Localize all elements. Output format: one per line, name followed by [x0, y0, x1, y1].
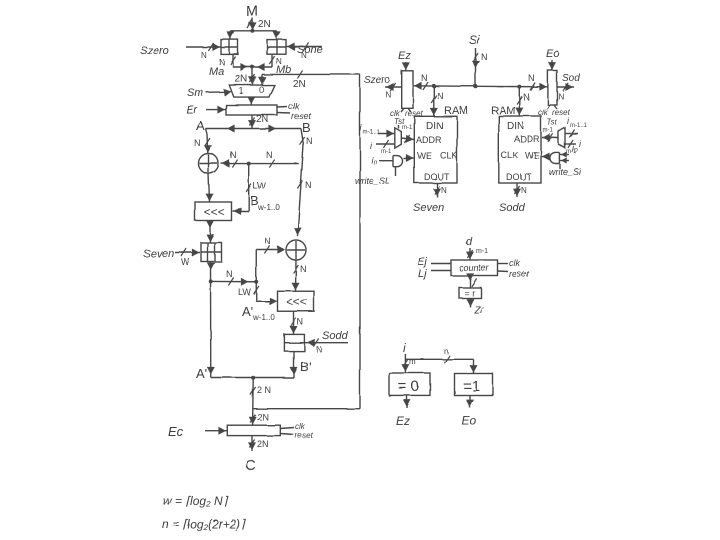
bus-width label 2N (regC in) [257, 412, 269, 422]
svg-text:WE: WE [417, 151, 432, 161]
wire Ez output [403, 395, 411, 408]
net label i m-1..1 (M4) [567, 116, 588, 129]
svg-text:Er: Er [186, 104, 198, 116]
junction merge [251, 376, 255, 380]
svg-text:LW: LW [238, 287, 251, 297]
net label Seven [143, 248, 174, 260]
net label Ej [417, 256, 427, 268]
wire branch to CMP1 [470, 359, 478, 373]
pin clk (REG-AB) [277, 101, 299, 111]
node B' [300, 359, 311, 374]
svg-text:ADDR: ADDR [416, 135, 442, 145]
svg-text:Ec: Ec [168, 424, 184, 439]
wire i0 input (G1) [379, 160, 393, 162]
net label B w-1..0 [250, 193, 280, 212]
wire i0 input (G2) [560, 152, 569, 158]
net label d [466, 236, 473, 248]
junction on M split [250, 29, 254, 33]
pin CLK (RAM1) [440, 151, 458, 161]
svg-text:N: N [521, 186, 527, 195]
svg-text:Sodd: Sodd [322, 330, 349, 342]
svg-text:Szero: Szero [140, 45, 169, 57]
svg-text:DOUT: DOUT [424, 172, 450, 182]
formula W [163, 494, 229, 508]
svg-text:2N: 2N [258, 19, 271, 30]
svg-text:N: N [297, 317, 304, 327]
wire bus to DIN2 [515, 87, 523, 116]
width label N (bus right) [528, 73, 535, 83]
net label Si [469, 33, 480, 47]
pin WE (RAM2) [525, 151, 540, 161]
svg-text:i: i [403, 341, 406, 355]
formula n [162, 517, 246, 531]
svg-text:Ez: Ez [398, 50, 411, 62]
svg-text:N: N [201, 51, 207, 60]
net label i0 (G1) [371, 155, 377, 165]
wire i high input (M3) [378, 130, 394, 138]
mux M3 (ADDR1) [395, 128, 402, 148]
wire merge down [249, 378, 257, 426]
select label Tst (M4) [547, 118, 558, 127]
wire Ec enable [205, 427, 227, 435]
wire Eo enable [548, 60, 556, 71]
wire feedback vertical [359, 74, 361, 408]
width label N (DIN2) [523, 92, 530, 102]
net label Seven out [413, 202, 444, 214]
svg-text:N: N [558, 92, 564, 101]
wire S1 to mux M2 [206, 220, 214, 242]
net label Er [186, 104, 198, 116]
svg-text:DOUT: DOUT [506, 172, 532, 182]
adder U2 [286, 240, 306, 260]
svg-text:N: N [226, 269, 233, 279]
net label i m-1..1 [360, 123, 381, 136]
svg-text:A': A' [196, 366, 207, 381]
net label i (M4) [579, 139, 582, 149]
wire REG-AB output [248, 115, 256, 129]
svg-text:N: N [301, 51, 307, 60]
node C [245, 457, 256, 474]
wire Ez enable [402, 62, 410, 71]
width label N (U1 in left) [230, 150, 237, 160]
width label n (branch) [444, 347, 448, 356]
wire G1 to WE1 [404, 154, 414, 162]
wire M2 out branch right [211, 278, 257, 286]
bus-width label 2N on M [258, 19, 271, 30]
junction branch col [254, 280, 258, 284]
net label Sod out [562, 73, 580, 84]
svg-text:Ez: Ez [396, 414, 410, 428]
svg-text:=1: =1 [463, 378, 480, 395]
register Ma [221, 40, 238, 55]
svg-text:Eo: Eo [462, 414, 477, 428]
svg-text:N: N [385, 90, 391, 99]
pin reset (REG-AB) [277, 111, 312, 121]
width label N (U1 in right) [266, 150, 273, 160]
svg-text:N: N [421, 73, 428, 83]
wire M4 to ADDR2 [542, 134, 559, 142]
wire to mux Ma [226, 31, 234, 40]
pin reset (REG-O) [552, 105, 571, 117]
svg-text:clk: clk [295, 422, 306, 431]
node A [196, 118, 205, 133]
svg-text:2N: 2N [256, 114, 269, 125]
register REG-C [227, 425, 280, 435]
svg-text:clk: clk [288, 101, 299, 111]
counter CNT1 [451, 260, 498, 276]
wire Er enable [206, 106, 226, 114]
pin clk (REG-Z) [390, 108, 404, 118]
net label Sm [187, 87, 204, 99]
wire Sod output [557, 83, 574, 91]
wire Sone input [286, 43, 322, 51]
bus-width label 2N (C) [257, 439, 269, 449]
net label i0 (G2) [572, 143, 578, 153]
net label Eo out [462, 414, 477, 428]
junction DIN2 branch [517, 85, 521, 89]
width label N (Sone) [301, 51, 307, 60]
register REG-Z (Szero) [402, 71, 413, 109]
svg-text:m-1: m-1 [476, 248, 488, 255]
wire S2 to REG-B' [290, 311, 298, 334]
width label m (i) [409, 357, 416, 366]
pin DIN (RAM1) [426, 121, 443, 132]
component label Ma [209, 66, 224, 78]
wire Sodd input [304, 339, 348, 347]
svg-text:W: W [181, 257, 190, 267]
svg-text:N: N [523, 92, 530, 102]
svg-text:Ma: Ma [209, 66, 224, 78]
bus-width label 2N (feedback) [293, 79, 306, 90]
wire Szero input [186, 43, 221, 51]
width label N (DOUT1) [441, 186, 447, 195]
net label i (M3) [370, 141, 373, 151]
width label N (Szero out) [385, 90, 391, 99]
pin ADDR (RAM1) [416, 135, 442, 145]
width label N (Mb out) [276, 57, 282, 66]
svg-text:N: N [481, 52, 488, 62]
svg-text:write_Si: write_Si [549, 167, 582, 177]
svg-text:i₀: i₀ [371, 155, 377, 165]
wire i input (M3) [376, 140, 394, 148]
wire i branch right [405, 355, 473, 363]
wire DOUT2 output [513, 183, 521, 197]
net label write_SL [355, 176, 390, 186]
pin DIN (RAM2) [507, 121, 524, 132]
wire adder U2 output [292, 260, 300, 291]
width label N (Ma out) [219, 58, 225, 67]
svg-text:2N: 2N [235, 74, 248, 85]
svg-text:RAM: RAM [491, 105, 515, 117]
svg-text:w-1..0: w-1..0 [257, 203, 280, 212]
net label Eo [546, 48, 559, 60]
svg-text:N: N [305, 180, 312, 190]
mux M1 pin 0 [259, 85, 264, 95]
wire i input (M4) [565, 140, 576, 148]
svg-text:N: N [264, 236, 271, 246]
wire REG-B' output [290, 351, 298, 377]
wire C output [248, 436, 256, 451]
svg-text:N: N [306, 136, 313, 146]
wire Szero output [385, 83, 402, 91]
junction M2 out [209, 279, 213, 283]
svg-text:N: N [266, 150, 273, 160]
wire shift-amount to S1 [233, 164, 252, 215]
wire Mb output [269, 54, 274, 67]
wire B to adder U1 input [221, 160, 299, 168]
svg-text:m: m [409, 357, 416, 366]
width label W (Seven) [181, 257, 190, 267]
svg-text:clk: clk [509, 258, 520, 268]
svg-text:Sod: Sod [562, 73, 580, 84]
wire d input [466, 248, 474, 260]
register Mb [267, 40, 286, 55]
junction Si-bus [474, 84, 478, 88]
svg-text:Tst: Tst [547, 118, 558, 127]
svg-text:LW: LW [253, 181, 266, 191]
wire DOUT1 output [433, 183, 441, 197]
width label m-1 (M3 in) [381, 149, 392, 155]
shifter S1 [195, 202, 232, 221]
gate G2 (AND) [550, 152, 560, 163]
svg-text:w = ⌈log₂ N⌉: w = ⌈log₂ N⌉ [163, 494, 229, 508]
svg-text:N: N [441, 186, 447, 195]
svg-text:DIN: DIN [507, 121, 524, 132]
wire i high input (M4) [565, 130, 578, 138]
svg-text:<<<: <<< [204, 205, 225, 219]
comparator CMP-0 [389, 373, 430, 395]
svg-text:= r: = r [464, 288, 475, 298]
net label Szero [140, 45, 169, 57]
wire Seven input [175, 249, 200, 257]
pin clk (REG-C) [280, 422, 305, 431]
bus A'-B' merge [211, 377, 294, 379]
wire B vertical [294, 129, 305, 237]
width label N (Szero) [201, 51, 207, 60]
pin CLK (RAM2) [501, 151, 519, 161]
svg-text:N: N [528, 73, 535, 83]
mux M1 (select Sm) [229, 85, 274, 97]
svg-text:N: N [230, 150, 237, 160]
component label RAM2 [491, 105, 515, 117]
width label N (DIN1) [437, 91, 444, 101]
mux M4 (ADDR2) [559, 128, 566, 148]
svg-text:WE: WE [525, 151, 540, 161]
svg-text:2 N: 2 N [257, 385, 271, 395]
svg-text:2N: 2N [257, 412, 269, 422]
svg-text:CLK: CLK [501, 151, 519, 161]
svg-text:Seven: Seven [143, 248, 174, 260]
wire M2 down to A' [207, 262, 215, 378]
svg-text:reset: reset [509, 269, 530, 279]
svg-text:n: n [444, 347, 448, 356]
wire bus to DIN1 [430, 86, 438, 116]
comparator CMP-R [459, 288, 481, 299]
component label RAM1 [444, 105, 468, 117]
net label Sodd [322, 330, 349, 342]
wire A to adder U1 [204, 129, 212, 154]
width label N (Si) [481, 52, 488, 62]
net label Ez [398, 50, 411, 62]
svg-text:2N: 2N [293, 79, 306, 90]
svg-text:C: C [245, 457, 256, 474]
pin reset (CNT1) [498, 269, 530, 279]
svg-text:N: N [316, 345, 322, 354]
node M (input bus label) [246, 3, 259, 20]
mux M1 pin 1 [239, 86, 244, 96]
junction DIN1 branch [432, 84, 436, 88]
svg-text:m-1: m-1 [402, 125, 413, 131]
pin clk (CNT1) [498, 258, 521, 268]
width label N (U2 out) [300, 264, 307, 274]
wire Lj input [431, 270, 451, 272]
wire Zr output [466, 298, 474, 307]
pin DOUT (RAM2) [506, 172, 532, 182]
width label N (bus left) [421, 73, 428, 83]
wire write_SL input (G1) [395, 167, 397, 176]
wire i down [401, 354, 409, 373]
width label N (Sodd) [316, 345, 322, 354]
svg-text:0: 0 [259, 85, 264, 95]
pin ADDR (RAM2) [514, 134, 540, 144]
svg-text:N: N [300, 264, 307, 274]
wire branch to shifter S2 [254, 282, 277, 305]
wire write input (G2) [560, 158, 569, 170]
net label Lj [418, 268, 427, 280]
register REG-B' (Sodd mux) [284, 334, 304, 351]
wire CNT1 output [466, 273, 477, 287]
comparator CMP-1 [455, 374, 493, 396]
bus S main [413, 82, 548, 91]
svg-text:1: 1 [239, 86, 244, 96]
width label N (branch) [226, 269, 233, 279]
bus-width label 2N (merge) [257, 385, 271, 395]
junction B-shift branch [247, 162, 251, 166]
pin reset (REG-C) [280, 431, 313, 440]
wire G2 to WE2 [542, 153, 550, 161]
wire branch to adder U2 [256, 246, 285, 282]
svg-text:A': A' [242, 304, 253, 319]
junction Ma-Mb join [251, 65, 255, 69]
node A' [196, 366, 207, 381]
svg-text:Eo: Eo [546, 48, 559, 60]
bus-width label 2N (mux in1) [235, 74, 248, 85]
svg-text:RAM: RAM [444, 105, 468, 117]
svg-text:reset: reset [295, 431, 314, 440]
pin reset (REG-Z) [405, 108, 424, 118]
net label Sone [297, 44, 323, 56]
svg-text:m-1..1: m-1..1 [570, 123, 588, 129]
pin DOUT (RAM1) [424, 172, 450, 182]
svg-text:Ej: Ej [417, 256, 427, 268]
width label m-1 (M4 in) [566, 149, 577, 155]
wire to mux Mb [273, 31, 281, 40]
svg-text:i₀: i₀ [572, 143, 578, 153]
pin clk (REG-O) [538, 105, 550, 117]
width label N (DOUT2) [521, 186, 527, 195]
node B [302, 120, 311, 135]
svg-text:Si: Si [469, 33, 480, 47]
wire Ej input [431, 263, 451, 265]
bus-width label 2N (AB) [256, 114, 269, 125]
width label LW (S1) [253, 181, 266, 191]
width label N (B1) [306, 136, 313, 146]
net label Ez out [396, 414, 410, 428]
width label m-1 (d) [476, 248, 488, 255]
wire adder U1 to shifter S1 [206, 174, 214, 203]
wire Si input [472, 48, 480, 86]
wire Eo output [466, 396, 474, 409]
wire M split bar [230, 30, 276, 32]
width label LW (S2) [238, 287, 251, 297]
svg-text:Sodd: Sodd [499, 202, 526, 214]
svg-text:n = ⌈log₂(2r+2)⌉: n = ⌈log₂(2r+2)⌉ [162, 517, 246, 531]
width label N (B2) [305, 180, 312, 190]
wire Sm select [206, 89, 232, 97]
svg-text:Sm: Sm [187, 87, 204, 99]
width label m-1 (M4 out) [543, 128, 554, 134]
svg-text:Zr: Zr [473, 305, 484, 316]
register REG-O (Sod) [548, 71, 557, 106]
width label m-1 (M3 out) [402, 125, 413, 131]
svg-text:Szero: Szero [364, 75, 391, 86]
svg-text:2N: 2N [257, 439, 269, 449]
wire join bus Ma-Mb [233, 63, 272, 71]
adder U1 [199, 154, 219, 174]
svg-text:<<<: <<< [286, 295, 307, 309]
net label Ec [168, 424, 184, 439]
shifter S2 [278, 291, 315, 311]
svg-text:= 0: = 0 [398, 378, 419, 395]
ram RAM1 [414, 116, 457, 183]
svg-text:DIN: DIN [426, 121, 443, 132]
gate G1 (AND) [393, 156, 403, 167]
svg-text:M: M [246, 3, 259, 20]
width label N (Sod out) [558, 92, 564, 101]
ram RAM2 [499, 116, 541, 183]
svg-text:N: N [437, 91, 444, 101]
net label i (loop) [403, 341, 406, 355]
wire feedback to mux in0 [258, 70, 360, 85]
wire Ma output [230, 54, 235, 67]
select label Tst (M3) [394, 117, 405, 129]
svg-text:ADDR: ADDR [514, 134, 540, 144]
svg-text:m-1: m-1 [543, 128, 554, 134]
wire M3 to ADDR1 [401, 135, 414, 143]
svg-text:counter: counter [459, 263, 490, 273]
width label N (A) [194, 138, 201, 148]
wire to mux sel1 [249, 67, 257, 85]
net label Sodd out [499, 202, 526, 214]
net label A' w-1..0 [242, 304, 275, 322]
wire feedback bottom [253, 408, 360, 410]
register REG-AB [226, 105, 277, 115]
svg-text:A: A [196, 118, 205, 133]
svg-text:B: B [302, 120, 311, 135]
width label N (U2 left) [264, 236, 271, 246]
svg-text:d: d [466, 236, 473, 248]
svg-text:write_SL: write_SL [355, 176, 390, 186]
net label write_Si [549, 167, 582, 177]
svg-text:B': B' [300, 359, 311, 374]
net label Zr [473, 305, 484, 316]
svg-text:w-1..0: w-1..0 [252, 313, 275, 322]
mux M2 (Seven) [201, 243, 222, 262]
bus A-B [206, 125, 302, 133]
pin WE (RAM1) [417, 151, 432, 161]
svg-text:CLK: CLK [440, 151, 458, 161]
wire M input [247, 18, 257, 31]
